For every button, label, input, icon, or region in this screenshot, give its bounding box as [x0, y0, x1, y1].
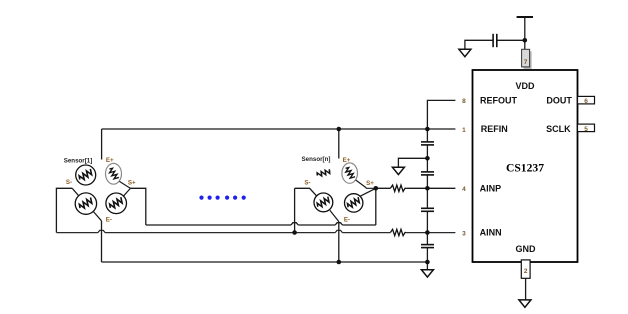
junction node ground tap	[425, 156, 430, 161]
junction VDD node	[523, 38, 528, 43]
sensor n gauge bottom-right R	[345, 194, 363, 212]
svg-text:Sensor[1]: Sensor[1]	[64, 157, 93, 164]
svg-text:AINN: AINN	[480, 228, 502, 238]
svg-text:VDD: VDD	[515, 81, 535, 91]
sensor 1 gauge top-left R	[76, 165, 96, 185]
svg-text:REFIN: REFIN	[481, 124, 508, 134]
ground symbol pin2	[519, 300, 531, 307]
svg-text:8: 8	[462, 98, 466, 105]
capacitor column wires	[426, 145, 428, 262]
capacitor C2	[421, 172, 434, 175]
svg-text:REFOUT: REFOUT	[480, 96, 518, 106]
sensor 1 gauge bottom-left R	[75, 193, 96, 214]
svg-text:E-: E-	[106, 217, 112, 224]
wire bus S+ sensor1 (line A)	[146, 224, 376, 226]
sensor 1 diagonal S- to BL	[72, 188, 78, 195]
wire hop on line B at sensor n E-	[335, 230, 342, 232]
wire REFOUT	[427, 100, 455, 141]
junction node S+ bus	[374, 186, 379, 191]
ground symbol mid	[392, 167, 404, 174]
svg-text:S+: S+	[128, 179, 136, 186]
svg-text:CS1237: CS1237	[506, 162, 544, 175]
svg-text:4: 4	[462, 186, 466, 193]
svg-text:S-: S-	[304, 179, 310, 186]
capacitor C1 (REFIN-GND upper)	[421, 142, 434, 145]
sensor n gauge top-left R bare zigzag	[316, 169, 332, 177]
op chip CS1237 body	[473, 70, 578, 262]
wire AINP	[376, 187, 456, 189]
junction node sensor n E- tap	[337, 260, 342, 265]
pin 6 box DOUT	[578, 96, 595, 105]
ground symbol bottom	[421, 270, 433, 277]
svg-text:6: 6	[584, 98, 588, 105]
capacitor C4	[421, 245, 434, 248]
wire hop on line A at sensor n S-	[291, 223, 298, 225]
sensor n E- vertical wire	[338, 222, 340, 263]
resistor on AINN line	[390, 229, 406, 235]
wire bus E+ / REFIN	[102, 128, 456, 130]
sensor n gauge bottom-left R	[314, 193, 333, 212]
sensor 1 S- wire	[56, 188, 72, 232]
junction node REFIN/E+ bus	[425, 127, 430, 132]
pin 7 box	[522, 49, 532, 69]
sensor n E+ vertical wire	[338, 129, 340, 159]
svg-text:GND: GND	[516, 244, 537, 254]
wire VDD to decoupling cap	[465, 40, 525, 49]
svg-text:2: 2	[524, 268, 528, 275]
sensor 1 E+ vertical wire	[101, 129, 103, 160]
ground stub bottom column	[426, 262, 428, 270]
sensor 1 diagonal ellipse to S+	[119, 181, 130, 188]
junction node sensor n E+ tap	[337, 127, 342, 132]
svg-text:E-: E-	[344, 216, 350, 223]
svg-text:S-: S-	[66, 179, 72, 186]
sensor n S+ vertical wire	[375, 188, 377, 225]
wire pin2 to ground	[525, 278, 527, 300]
wire hop on line B at sensor1 E-	[98, 230, 105, 232]
svg-text:SCLK: SCLK	[546, 124, 571, 134]
VDD power bar	[517, 17, 533, 49]
svg-text:E+: E+	[106, 157, 114, 164]
sensor 1 diagonal BR to S+	[123, 188, 130, 196]
sensor 1 gauge E+ ellipse R	[106, 163, 122, 184]
sensor 1 S+ wire	[130, 188, 145, 225]
ground symbol top	[459, 49, 471, 56]
ellipsis dots between sensors	[199, 196, 245, 200]
svg-text:Sensor[n]: Sensor[n]	[302, 156, 331, 163]
sensor n diagonal BL to E-	[330, 210, 339, 221]
wire bus E- / GND	[102, 261, 428, 263]
resistor on AINP line	[390, 185, 406, 191]
sensor 1 E- vertical wire	[101, 221, 103, 262]
pin 5 box SCLK	[578, 124, 595, 133]
svg-text:5: 5	[584, 126, 588, 133]
sensor 1 diagonal BL to E-	[93, 212, 101, 221]
svg-text:AINP: AINP	[480, 184, 502, 194]
junction node AINP	[425, 186, 430, 191]
ground stub mid column	[398, 158, 427, 167]
svg-text:DOUT: DOUT	[546, 96, 572, 106]
svg-text:7: 7	[524, 59, 528, 66]
sensor n S- vertical wire	[294, 188, 296, 232]
junction node AINN	[425, 230, 430, 235]
svg-text:3: 3	[462, 230, 466, 237]
sensor n diagonal ellipse to S+	[356, 180, 376, 188]
sensor n gauge E+ ellipse R	[342, 163, 358, 183]
svg-text:1: 1	[462, 127, 466, 134]
pin 2 box GND	[521, 260, 530, 278]
sensor n S- stub	[295, 188, 317, 196]
junction node sensor n S- tap	[292, 230, 297, 235]
capacitor C5 decoupling	[493, 34, 497, 47]
svg-text:S+: S+	[366, 180, 374, 187]
sensor 1 gauge bottom-right R	[106, 193, 127, 214]
wire bus S- / AINN (line B)	[56, 232, 455, 234]
wire hop on line A at sensor n E-	[335, 223, 342, 225]
capacitor C3	[421, 208, 434, 211]
svg-text:E+: E+	[343, 157, 351, 164]
junction node bottom GND	[425, 260, 430, 265]
sensor n diagonal BR to S+	[360, 188, 376, 196]
